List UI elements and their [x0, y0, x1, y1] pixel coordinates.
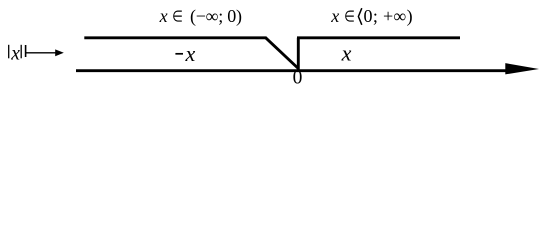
svg-text:0: 0	[293, 67, 303, 84]
svg-text:∈: ∈	[172, 9, 183, 26]
mapsto arrowhead	[55, 49, 64, 56]
mapsto arrow shaft	[26, 52, 57, 54]
wire vertical segment at 0	[297, 38, 300, 71]
mapsto bar	[25, 45, 27, 57]
angle bracket of right label	[358, 8, 361, 25]
svg-text:x: x	[330, 6, 339, 26]
|x| : bar, italic x, bar	[8, 45, 10, 59]
svg-text:x: x	[185, 41, 196, 66]
svg-text:0; +∞): 0; +∞)	[364, 6, 413, 27]
svg-text:(−∞; 0): (−∞; 0)	[190, 6, 242, 27]
axis arrowhead	[505, 63, 539, 74]
wire diagonal segment	[265, 37, 298, 68]
svg-text:x: x	[341, 41, 352, 66]
svg-text:x: x	[159, 6, 168, 26]
label -x : minus drawn, italic x	[175, 53, 183, 55]
svg-text:∈: ∈	[344, 9, 355, 26]
wire top-left segment	[84, 36, 266, 39]
axis line	[76, 69, 512, 72]
svg-text:x: x	[10, 44, 20, 65]
wire top-right segment	[297, 36, 460, 39]
